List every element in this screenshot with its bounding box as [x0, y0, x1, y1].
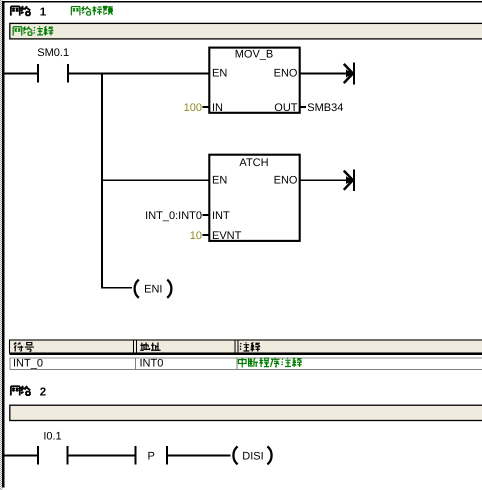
coil ENI — [135, 280, 172, 298]
svg-text:10: 10 — [190, 230, 202, 242]
svg-text:INT_0:INT0: INT_0:INT0 — [145, 210, 202, 222]
contact P positive edge — [134, 446, 168, 465]
svg-text:I0.1: I0.1 — [43, 431, 61, 443]
function block ATCH — [209, 155, 299, 242]
wire branch to ATCH EN — [101, 179, 209, 181]
coil DISI — [233, 446, 271, 464]
network 1 comment box — [10, 23, 482, 39]
pin tick ATCH INT — [203, 214, 209, 216]
table header bottom bar — [10, 353, 482, 355]
table header 注释 — [240, 342, 260, 351]
symbol table header row — [10, 340, 482, 353]
power rail — [2, 1, 4, 488]
svg-text:OUT: OUT — [274, 102, 298, 114]
table header 地址 — [140, 342, 160, 350]
svg-text:INT0: INT0 — [140, 357, 164, 369]
network 1 header label 网络 1 — [11, 6, 30, 16]
wire contact I0.1 to contact P — [69, 455, 135, 457]
wire rail to contact SM0.1 — [4, 73, 37, 75]
svg-text:EN: EN — [212, 174, 227, 186]
network 1 title 网络标题 — [71, 6, 112, 15]
function block MOV_B — [209, 48, 299, 115]
svg-text:SM0.1: SM0.1 — [37, 47, 69, 59]
svg-text:P: P — [148, 450, 155, 462]
svg-text:SMB34: SMB34 — [307, 102, 343, 114]
pin tick MOV_B IN — [203, 106, 209, 108]
table data row — [10, 357, 482, 370]
svg-text:ENI: ENI — [144, 283, 162, 295]
svg-text:IN: IN — [212, 102, 223, 114]
svg-text:INT_0: INT_0 — [13, 357, 43, 369]
svg-text:DISI: DISI — [242, 450, 263, 462]
contact I0.1 — [37, 431, 69, 465]
table header 符号 — [14, 342, 34, 351]
pin tick MOV_B OUT — [300, 106, 306, 108]
svg-text:2: 2 — [40, 386, 46, 398]
wire rail to contact I0.1 — [4, 455, 37, 457]
continuation arrow 2 — [344, 169, 355, 191]
svg-text:EVNT: EVNT — [212, 230, 242, 242]
contact SM0.1 — [37, 47, 69, 83]
wire branch corner to ENI coil — [101, 287, 132, 289]
pin tick ATCH EVNT — [203, 234, 209, 236]
network 2 comment box — [10, 405, 482, 420]
svg-text:ATCH: ATCH — [239, 157, 268, 169]
svg-text:ENO: ENO — [274, 174, 298, 186]
network 2 header label 网络 2 — [11, 386, 30, 396]
network 1 divider line — [2, 1, 482, 3]
svg-text:ENO: ENO — [274, 68, 298, 80]
svg-text:EN: EN — [212, 68, 227, 80]
svg-text:INT: INT — [212, 210, 230, 222]
svg-text:MOV_B: MOV_B — [235, 49, 274, 61]
table cell 中断程序注释 — [238, 358, 302, 368]
wire ATCH ENO to arrow — [300, 179, 353, 181]
continuation arrow 1 — [344, 63, 355, 85]
wire MOV_B ENO to arrow — [300, 73, 353, 75]
wire contact to MOV_B EN — [69, 73, 209, 75]
network 1 comment text 网络注释 — [13, 26, 53, 35]
left margin checker strip — [0, 0, 2, 490]
branch vertical wire — [101, 73, 103, 289]
wire contact P to coil DISI — [168, 455, 231, 457]
svg-text:100: 100 — [184, 102, 202, 114]
svg-text:1: 1 — [40, 6, 47, 18]
